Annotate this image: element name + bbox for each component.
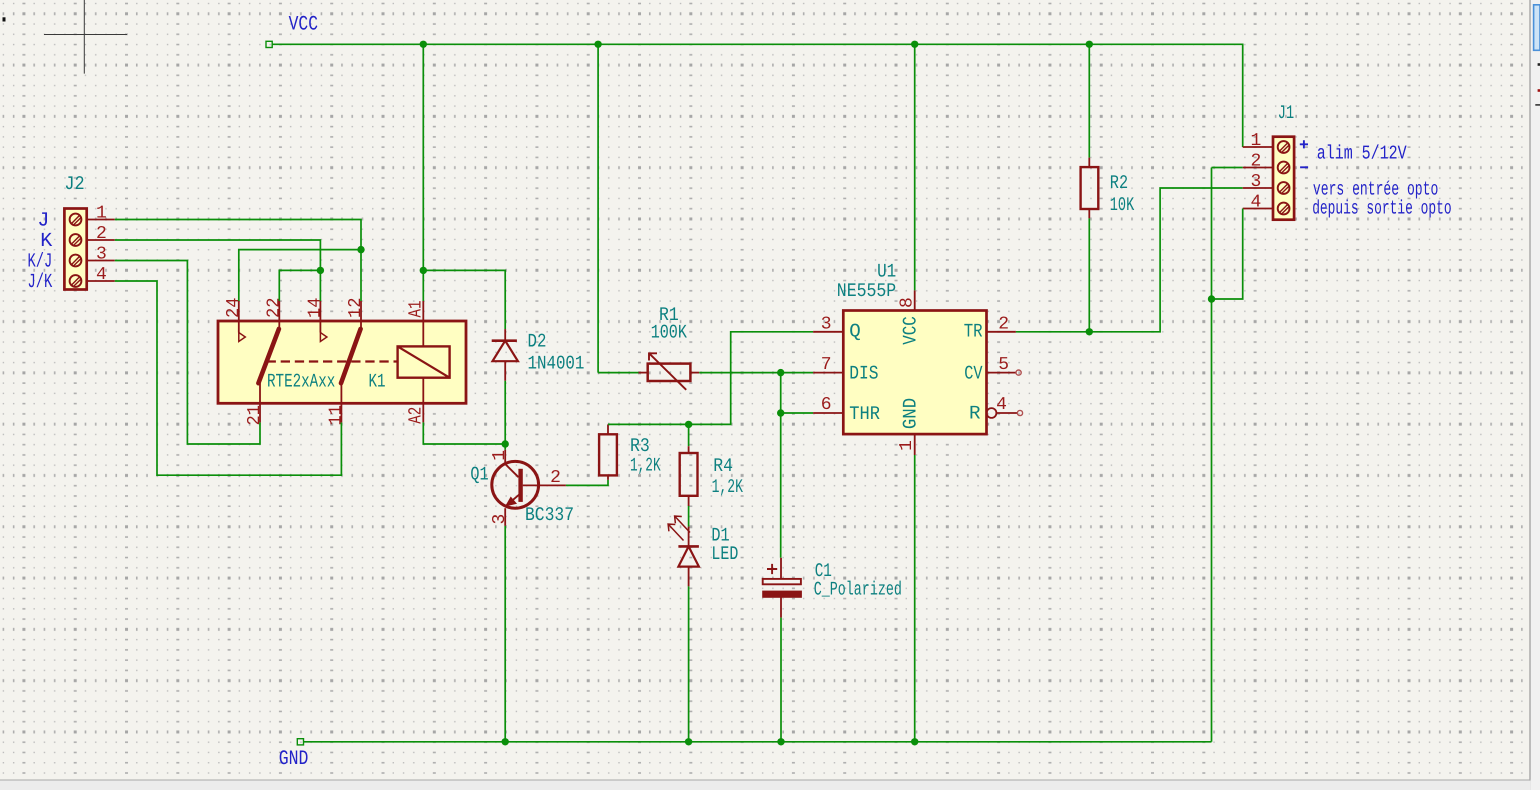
junction DIS (777, 369, 784, 376)
svg-text:R: R (969, 403, 981, 425)
svg-text:5: 5 (998, 355, 1009, 375)
svg-text:Q: Q (849, 321, 861, 343)
wire to R4 (688, 424, 690, 446)
svg-text:100K: 100K (651, 322, 688, 344)
junction GND/D1 (685, 738, 692, 745)
svg-text:LED: LED (711, 543, 738, 565)
relay K1 body (218, 321, 466, 403)
wire J to relay pin12 (115, 220, 361, 302)
J2 pin 1 (87, 219, 115, 221)
relay K1 pin A2 (422, 378, 424, 423)
wire K to relay pin14 (115, 240, 321, 301)
wire to DIS pin (781, 372, 813, 374)
J1 screw terminal 3 (1278, 182, 1290, 194)
resistor R3 1,2K (607, 475, 609, 479)
svg-text:2: 2 (1250, 152, 1261, 172)
junction D2/Q1 collector (502, 440, 509, 447)
J1 polarity + (1300, 140, 1308, 148)
svg-text:A1: A1 (406, 301, 427, 318)
relay K1 pin A1 (422, 301, 424, 346)
wire D2 anode down (504, 381, 506, 444)
J1 screw terminal 4 (1278, 203, 1290, 215)
J1 pin 2 (1243, 167, 1273, 169)
svg-text:4: 4 (96, 265, 107, 285)
svg-text:1N4001: 1N4001 (528, 352, 585, 374)
wire J/K to relay pin11 (115, 281, 342, 475)
IC U1 NE555P body (843, 311, 986, 435)
relay K1 pin 11 (340, 383, 342, 422)
junction A1/D2 (420, 267, 427, 274)
svg-text:R2: R2 (1110, 172, 1128, 194)
J2 screw terminal 1 (70, 214, 82, 226)
svg-text:21: 21 (245, 405, 265, 426)
junction GND/Q1 (502, 738, 509, 745)
J2 screw terminal 2 (70, 234, 82, 246)
J2 screw terminal 4 (70, 275, 82, 287)
junction K net (317, 267, 324, 274)
wire THR to C1 (780, 413, 782, 558)
J1 pin 3 (1243, 187, 1273, 189)
wire U1 GND pin to GND rail (914, 455, 916, 742)
connector J1 (1273, 137, 1294, 220)
relay K1 pin 22 (278, 301, 280, 329)
wire to Q1 collector (504, 444, 506, 450)
diode D2 1N4001 (504, 329, 506, 341)
svg-text:3: 3 (1250, 172, 1261, 192)
U1 pin 6 THR (813, 412, 843, 414)
svg-text:11: 11 (326, 405, 346, 426)
wire J1 pin2/4 to GND (1211, 168, 1213, 742)
wire C1 to GND (780, 618, 782, 742)
connector J2 (64, 209, 86, 290)
svg-text:depuis sortie opto: depuis sortie opto (1312, 198, 1451, 220)
wire D1 to GND (688, 586, 690, 741)
svg-text:TR: TR (964, 321, 983, 343)
svg-text:GND: GND (900, 398, 922, 429)
junction VCC/R1 (594, 41, 601, 48)
junction THR (777, 409, 784, 416)
wire VCC branch to D2 cathode (423, 270, 505, 329)
wire VCC to R1 left (597, 44, 599, 372)
wire VCC rail (272, 44, 1242, 147)
wire VCC to R2 top (1088, 44, 1090, 157)
svg-text:THR: THR (849, 403, 880, 425)
J2 pin 3 (87, 260, 115, 262)
svg-text:J/K: J/K (28, 271, 53, 294)
capacitor C1 C_Polarized (780, 558, 782, 579)
wire R1 to DIS/THR (699, 373, 781, 413)
svg-text:3: 3 (821, 314, 832, 334)
wire K/J to relay pin21 (115, 261, 260, 445)
wire R2 bottom to TR net (1088, 218, 1090, 331)
U1 pin 8 VCC (914, 290, 916, 310)
wire VCC to relay A1 (422, 44, 424, 301)
J1 polarity - (1300, 166, 1308, 168)
svg-text:A2: A2 (406, 407, 427, 424)
bottom status strip (0, 781, 1531, 790)
right scrollbar panel (1531, 0, 1540, 790)
svg-text:1: 1 (96, 204, 107, 224)
wire branch to relay pin24 (239, 250, 361, 301)
svg-text:4: 4 (1250, 193, 1261, 213)
junction GND/C1 (777, 738, 784, 745)
svg-text:1,2K: 1,2K (712, 476, 744, 498)
svg-text:RTE2xAxx: RTE2xAxx (267, 371, 335, 393)
wire to THR pin (781, 412, 813, 414)
svg-text:14: 14 (305, 297, 325, 318)
junction GND/U1 (911, 738, 918, 745)
wire VCC to U1 pin8 (914, 44, 916, 290)
svg-text:R4: R4 (713, 455, 733, 477)
resistor R4 1,2K (688, 446, 690, 453)
svg-text:10K: 10K (1110, 194, 1135, 216)
svg-text:3: 3 (490, 514, 510, 525)
junction R2/TR (1086, 328, 1093, 335)
svg-text:1,2K: 1,2K (630, 454, 661, 476)
J2 screw terminal 3 (70, 255, 82, 267)
svg-text:C_Polarized: C_Polarized (814, 578, 902, 600)
svg-text:1: 1 (490, 450, 510, 461)
svg-text:1: 1 (1250, 131, 1261, 151)
resistor R2 10K (1088, 158, 1090, 168)
svg-text:CV: CV (964, 363, 983, 385)
svg-text:J2: J2 (64, 173, 84, 195)
relay K1 pin 12 (360, 301, 362, 329)
wire Q1 base to R3 (566, 480, 608, 486)
svg-text:J1: J1 (1278, 102, 1294, 124)
J1 screw terminal 2 (1278, 162, 1290, 174)
J1 pin 1 (1243, 146, 1273, 148)
sheet origin crosshair (44, 0, 127, 74)
svg-text:6: 6 (821, 395, 832, 415)
svg-text:2: 2 (550, 468, 561, 488)
svg-text:NE555P: NE555P (837, 280, 896, 302)
svg-text:K1: K1 (369, 371, 386, 393)
U1 pin 4 R (inverted, unconnected) (987, 408, 997, 418)
svg-text:7: 7 (821, 355, 832, 375)
relay K1 pin 14 (319, 301, 321, 333)
wire A2 to D2/Q1 (423, 422, 505, 444)
VCC rail open end square (266, 41, 272, 47)
D1 emission arrows (668, 524, 683, 540)
junction J1 pin2/pin4 (1208, 295, 1215, 302)
GND rail open end square (297, 739, 303, 745)
relay K1 mechanical link (dashed) (267, 360, 398, 362)
relay K1 switch lever B (341, 329, 361, 383)
U1 pin 5 CV (unconnected) (987, 372, 1016, 374)
wire VCC to R1 (598, 372, 638, 374)
svg-text:3: 3 (96, 245, 107, 265)
relay K1 pin 24 (238, 301, 240, 333)
svg-text:2: 2 (96, 224, 107, 244)
svg-text:BC337: BC337 (525, 504, 574, 526)
relay K1 switch lever A (258, 329, 279, 383)
wire Q1 emitter to GND (504, 526, 506, 742)
svg-text:12: 12 (346, 297, 366, 318)
wire J1 pin2 (1212, 167, 1243, 169)
junction VCC/R2 (1086, 41, 1093, 48)
wire J1 pin4 (1212, 209, 1243, 300)
wire branch to relay pin22 (279, 270, 320, 301)
wire GND rail (304, 741, 1212, 743)
svg-text:GND: GND (279, 748, 309, 771)
junction VCC/U1 (911, 41, 918, 48)
wire TR to J1 pin3 (1016, 188, 1243, 332)
relay K1 pin 21 (259, 383, 261, 422)
wire U1 Q to R3/R4 (608, 332, 813, 425)
transistor Q1 BC337 (504, 450, 506, 464)
svg-text:Q1: Q1 (470, 463, 488, 485)
svg-text:2: 2 (998, 314, 1009, 334)
relay K1 coil (398, 346, 450, 377)
svg-text:22: 22 (264, 297, 284, 318)
LED D1 (688, 527, 690, 547)
junction R4 top (685, 421, 692, 428)
svg-text:VCC: VCC (900, 316, 922, 345)
wire R4 to D1 (688, 506, 690, 527)
svg-text:DIS: DIS (849, 363, 878, 385)
svg-text:24: 24 (224, 297, 244, 318)
J1 screw terminal 1 (1278, 141, 1290, 153)
svg-text:VCC: VCC (289, 13, 318, 36)
U1 pin 1 GND (914, 434, 916, 455)
svg-text:1: 1 (897, 440, 917, 451)
J2 pin 4 (87, 280, 115, 282)
U1 pin 7 DIS (813, 372, 843, 374)
J2 pin 2 (87, 239, 115, 241)
junction VCC/A1 (420, 41, 427, 48)
svg-text:D2: D2 (528, 331, 547, 353)
U1 pin 3 Q (813, 331, 843, 333)
svg-text:4: 4 (996, 395, 1007, 415)
U1 pin 2 TR (987, 331, 1016, 333)
svg-text:alim 5/12V: alim 5/12V (1317, 142, 1407, 164)
svg-text:8: 8 (898, 297, 918, 308)
junction J net (357, 246, 364, 253)
J1 pin 4 (1243, 208, 1273, 210)
